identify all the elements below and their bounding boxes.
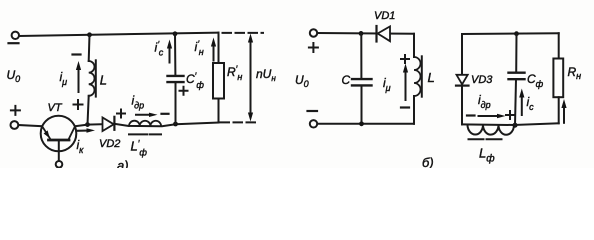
core dashes of L'ф [129, 133, 161, 135]
plus mark under C'ф [180, 87, 188, 95]
node C bottom (b) [359, 121, 364, 126]
current arrow i_mu (b) [405, 70, 407, 101]
transistor collector [69, 126, 76, 139]
minus mark above i_mu arrow [73, 53, 81, 55]
svg-text:L: L [428, 70, 435, 85]
svg-text:U0: U0 [7, 68, 21, 84]
minus mark below L (b) [401, 106, 409, 108]
wire L branch upper [88, 35, 91, 61]
plus mark after Lф arrow [506, 111, 514, 119]
wire top rail (b-left) [317, 32, 414, 35]
wire bottom rail (a) [88, 123, 219, 127]
minus polarity mark [9, 42, 19, 44]
svg-text:Cф: Cф [527, 72, 544, 89]
svg-text:б): б) [422, 155, 434, 168]
wire R-branch down [218, 33, 220, 63]
node Cф top [514, 31, 519, 36]
core line of L [95, 60, 97, 96]
current arrow i_dr (b) [479, 115, 500, 117]
core dashes of Lф [469, 138, 502, 140]
wire L branch (b-left) lower [413, 96, 415, 124]
svg-text:VD2: VD2 [99, 138, 120, 150]
wire top rail (a) [19, 33, 218, 36]
wire C branch upper (b) [360, 33, 362, 78]
svg-text:L: L [100, 73, 107, 88]
node L-branch top [87, 32, 92, 37]
diode VD3 [457, 75, 468, 85]
node C-branch top [173, 31, 178, 36]
current arrow i_dr (a) [136, 114, 152, 116]
terminal base [56, 161, 63, 168]
svg-text:iк: iк [77, 138, 85, 155]
load arrow up (b-right) [563, 105, 565, 123]
transistor emitter with arrow [42, 126, 50, 139]
current arrow i_c (b) [521, 95, 523, 116]
node C top [359, 31, 364, 36]
wire Cф branch upper [515, 34, 517, 72]
svg-text:iμ: iμ [383, 76, 391, 93]
current arrow i'_n [213, 44, 215, 61]
svg-text:VD1: VD1 [374, 10, 395, 22]
svg-text:C′ф: C′ф [186, 71, 204, 90]
svg-text:iμ: iμ [60, 70, 68, 87]
wire bottom rail right (b-right) [514, 123, 559, 125]
capacitor Cф [509, 73, 525, 80]
svg-text:L′ф: L′ф [131, 139, 148, 158]
diode VD1 [375, 26, 377, 42]
current arrow i_k [77, 130, 90, 132]
wire bottom rail (b-left) [317, 123, 414, 125]
svg-text:ic: ic [527, 95, 535, 112]
node collector junction [85, 122, 90, 127]
plus mark below i_mu arrow [74, 100, 83, 109]
wire emitter lead [19, 125, 42, 126]
svg-text:i′c: i′c [155, 39, 164, 58]
wire L branch lower [88, 96, 89, 125]
resistor Rн [553, 59, 563, 98]
wire Cф branch lower [515, 80, 516, 126]
transistor base lead [58, 140, 60, 161]
transistor base bar [49, 139, 70, 142]
inductor L (b) [414, 57, 421, 96]
svg-text:iдр: iдр [478, 93, 491, 110]
wire VD3 branch upper [461, 34, 463, 75]
inductor L (a) [89, 61, 95, 96]
core line of L (b) [421, 56, 423, 96]
svg-text:i′н: i′н [195, 39, 204, 58]
wire L branch (b-left) upper [413, 34, 415, 57]
terminal minus (circuit b bottom-left) [310, 120, 317, 127]
wire collector to node [75, 125, 88, 127]
wire R-branch bottom [218, 99, 220, 123]
wire top rail (b-right) [462, 32, 559, 35]
svg-text:C: C [342, 73, 351, 87]
svg-text:VT: VT [48, 102, 63, 114]
terminal minus input (circuit a top-left) [12, 32, 19, 39]
plus polarity mark bottom-left [11, 106, 20, 115]
plus polarity mark [309, 43, 318, 52]
output voltage double arrow nU_n [250, 39, 252, 116]
dashed extension top (a) [223, 32, 264, 34]
svg-text:Rн: Rн [568, 65, 582, 81]
terminal plus input (circuit a bottom-left) [11, 121, 19, 129]
wire bottom-left stub (b-right) [462, 123, 514, 126]
node C-branch bottom [173, 122, 178, 127]
wire Rн branch upper [558, 33, 560, 58]
current arrow i'_c [169, 46, 171, 63]
dashed extension bottom (a) [221, 121, 260, 123]
minus polarity mark (b) [308, 110, 318, 112]
svg-text:nUн: nUн [256, 67, 276, 83]
terminal plus (circuit b top-left) [310, 29, 317, 36]
transistor VT circle [41, 116, 77, 152]
svg-text:R′н: R′н [227, 64, 242, 82]
svg-text:Lф: Lф [479, 146, 495, 165]
minus mark before Lф arrow [467, 114, 475, 116]
current arrow i_mu (a) [78, 67, 80, 92]
diode VD2 [103, 118, 114, 132]
inductor Lф (b-right) [467, 125, 514, 135]
minus mark after L'ф [162, 113, 169, 115]
node Lф-Cф junction [513, 123, 518, 128]
wire C branch lower (b) [361, 86, 363, 124]
svg-text:VD3: VD3 [471, 74, 493, 86]
inductor L'ф choke (a) [129, 121, 161, 126]
wire C'ф branch upper [174, 34, 176, 76]
plus mark after VD2 [117, 110, 125, 118]
wire Rн branch lower [558, 97, 560, 123]
svg-text:а): а) [117, 158, 129, 168]
wire VD3 branch lower [461, 86, 463, 125]
svg-text:U0: U0 [295, 73, 309, 89]
capacitor C'ф [168, 76, 184, 82]
resistor R'н [213, 63, 224, 99]
wire C'ф branch lower [175, 82, 177, 124]
plus mark above L (b) [401, 55, 409, 63]
capacitor C [352, 79, 372, 85]
svg-text:iдр: iдр [132, 94, 145, 111]
